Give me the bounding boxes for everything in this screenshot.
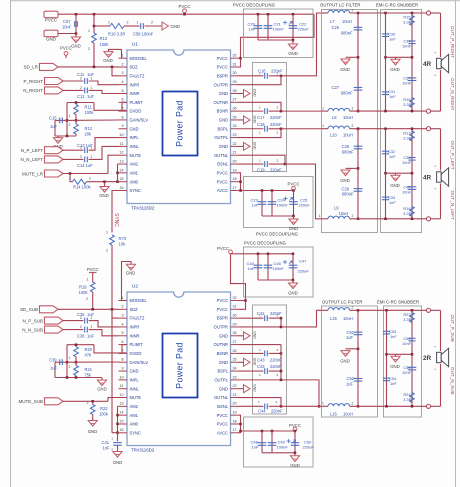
- wire OUT_P_SUB: [378, 309, 427, 311]
- svg-text:OUT_P_LEFT: OUT_P_LEFT: [450, 141, 455, 170]
- svg-text:680nF: 680nF: [342, 192, 354, 197]
- wire sub snub right rail: [411, 310, 413, 406]
- junction SD_SUB/R19: [91, 308, 94, 311]
- svg-text:C29: C29: [341, 186, 349, 191]
- junction R21 bottom: [75, 376, 78, 379]
- junction OUTNL/BSNL: [284, 163, 287, 166]
- connector MUTE_SUB: [45, 398, 64, 405]
- capacitor C32: [382, 151, 389, 154]
- svg-text:2: 2: [277, 314, 279, 318]
- svg-text:GND: GND: [390, 183, 400, 188]
- junction SD_LR/FAULTZ: [111, 66, 114, 69]
- capacitor C37: [408, 78, 417, 81]
- junction AM0 U2: [116, 423, 119, 426]
- wire L10 out: [350, 128, 378, 130]
- svg-text:BSPR: BSPR: [217, 73, 228, 78]
- output LC filter box (top): [322, 10, 378, 233]
- capacitor C57: [75, 21, 78, 27]
- svg-text:TPA3116D2: TPA3116D2: [131, 206, 155, 211]
- svg-text:SYNC: SYNC: [130, 430, 141, 435]
- svg-text:INNL: INNL: [130, 386, 140, 391]
- svg-text:10nF: 10nF: [402, 44, 411, 49]
- junction SYNC row U2: [116, 431, 119, 434]
- svg-text:220nF: 220nF: [270, 115, 282, 120]
- wire AM1 stub: [118, 172, 119, 174]
- svg-text:220uF: 220uF: [298, 27, 310, 32]
- svg-text:N_N_SUB: N_N_SUB: [22, 327, 43, 332]
- svg-text:C43: C43: [257, 358, 265, 363]
- capacitor C13: [85, 147, 88, 153]
- svg-text:N_RIGHT: N_RIGHT: [23, 88, 43, 93]
- wire into lower box U2: [241, 430, 296, 432]
- wire BSPL sub: [239, 370, 263, 372]
- svg-text:PVCC: PVCC: [45, 18, 57, 23]
- junction PVCC/C57: [75, 13, 78, 16]
- wire R21 bottom: [75, 376, 77, 378]
- wire divider bottom: [55, 135, 76, 137]
- svg-text:680nF: 680nF: [342, 149, 354, 154]
- wire sub rail: [231, 253, 294, 255]
- capacitor C43: [265, 351, 268, 357]
- svg-text:GND: GND: [340, 358, 350, 363]
- svg-text:1nF: 1nF: [389, 200, 396, 205]
- svg-text:GND: GND: [103, 58, 113, 63]
- svg-text:100nF: 100nF: [277, 203, 289, 208]
- wire L8 out: [350, 110, 378, 112]
- svg-text:1: 1: [322, 107, 324, 111]
- svg-text:26: 26: [233, 349, 237, 353]
- wire L9 out: [350, 218, 378, 220]
- svg-text:4: 4: [121, 322, 123, 326]
- bootstrap capacitor group box U2: [253, 305, 287, 414]
- junction lower gnd: [292, 215, 295, 218]
- svg-text:25: 25: [233, 115, 237, 119]
- PVCC decoupling box (sub, lower): [244, 417, 314, 467]
- svg-text:1: 1: [111, 436, 113, 440]
- U1 pin 5 INNR: [119, 89, 140, 96]
- svg-text:1: 1: [121, 54, 123, 58]
- svg-text:1: 1: [69, 114, 71, 118]
- svg-text:7: 7: [121, 349, 123, 353]
- svg-text:OUTPR: OUTPR: [214, 325, 228, 330]
- svg-text:R13: R13: [100, 36, 108, 41]
- wire C36 to INNR: [89, 330, 119, 336]
- connector N_N_LEFT: [45, 156, 64, 163]
- U2 pin 14 AM1: [119, 411, 139, 418]
- wire snubber left rail 2: [385, 129, 387, 219]
- U1 pin 7 GVDD: [119, 107, 142, 114]
- wire BSNR sub: [239, 352, 263, 354]
- svg-text:PVCC: PVCC: [217, 170, 228, 175]
- wire SYNC lower: [111, 245, 113, 433]
- junction rail/R13: [93, 13, 96, 16]
- svg-text:OUT_N_SUB: OUT_N_SUB: [450, 367, 455, 395]
- svg-text:20: 20: [233, 402, 237, 406]
- svg-text:10uH: 10uH: [343, 316, 353, 321]
- svg-text:19: 19: [233, 411, 237, 415]
- wire C43 out: [269, 352, 281, 354]
- U2 pin 19 PVCC: [217, 411, 239, 418]
- speaker right channel: [437, 54, 449, 72]
- svg-text:12: 12: [119, 151, 123, 155]
- resistor R21: [74, 366, 79, 376]
- wire snubber right rail 2: [411, 129, 413, 219]
- svg-text:2: 2: [80, 76, 82, 80]
- svg-text:8: 8: [121, 115, 123, 119]
- wire C49 leads: [271, 431, 273, 453]
- capacitor C20: [254, 26, 263, 29]
- power PVCC circle: [64, 52, 68, 56]
- node OUT_P_SUB terminal: [426, 308, 430, 312]
- wire C14 to INNL: [89, 146, 119, 159]
- ground snubber L: [391, 175, 400, 181]
- junction OUTPL sub: [280, 379, 283, 382]
- PVCC decoupling box (top): [244, 9, 314, 58]
- svg-text:27: 27: [233, 98, 237, 102]
- wire OUTPR sub feed: [281, 310, 322, 327]
- svg-text:17: 17: [233, 186, 237, 190]
- U1 pin 1 MODSEL: [119, 54, 148, 61]
- svg-text:2: 2: [352, 306, 354, 310]
- svg-text:PVCC: PVCC: [217, 246, 229, 251]
- power PVCC bar for R19: [89, 272, 97, 274]
- junction SD_SUB/SYNC column: [111, 308, 114, 311]
- wire C22 leads: [292, 14, 294, 40]
- ground pin22: [244, 142, 251, 150]
- svg-text:GND: GND: [253, 358, 257, 366]
- svg-text:C17: C17: [257, 115, 265, 120]
- U1 pin 31 PVCC: [217, 62, 239, 69]
- svg-text:220nF: 220nF: [270, 364, 282, 369]
- svg-text:GND: GND: [130, 369, 139, 374]
- junction C43b: [280, 370, 283, 373]
- capacitor C12: [85, 88, 88, 94]
- svg-text:AM2: AM2: [130, 162, 139, 167]
- junction C43a: [280, 352, 283, 355]
- svg-text:1: 1: [87, 277, 89, 281]
- svg-text:GVDD: GVDD: [130, 109, 142, 114]
- wire sub decoupling bottom: [258, 279, 293, 281]
- svg-text:2: 2: [80, 86, 82, 90]
- connector MUTE_LR: [45, 170, 64, 177]
- junction AM bracket bottom: [116, 180, 119, 183]
- wire pin25 U2 ground: [239, 361, 244, 363]
- wire sub divider top: [67, 344, 94, 346]
- svg-text:PVCC: PVCC: [217, 413, 228, 418]
- U1 pin 27 OUTNR: [213, 98, 239, 105]
- U2 pin 29 OUTPR: [214, 322, 239, 329]
- U2 pin 2 SDZ: [119, 305, 139, 312]
- wire PVCC rail stub: [184, 13, 186, 15]
- svg-text:INPR: INPR: [130, 325, 140, 330]
- svg-text:220uF: 220uF: [298, 269, 310, 274]
- svg-text:4R: 4R: [423, 174, 432, 181]
- svg-text:2: 2: [88, 47, 90, 51]
- capacitor C51: [354, 332, 363, 335]
- svg-text:3.3R: 3.3R: [403, 397, 411, 402]
- junction rail gnd tap: [357, 56, 360, 59]
- wire MUTE to pin12 U2: [108, 398, 119, 402]
- svg-text:3: 3: [121, 314, 123, 318]
- capacitor C50: [291, 443, 300, 446]
- wire AM0 stub U2: [118, 423, 119, 425]
- wire OUT_N_RIGHT: [378, 110, 427, 112]
- wire C44 out: [269, 405, 281, 407]
- U1 pin 24 BSPL: [218, 124, 239, 131]
- capacitor C48: [258, 443, 267, 446]
- wire snubber left rail: [385, 13, 387, 111]
- junction C23 top: [261, 189, 264, 192]
- junction divider tap: [75, 119, 78, 122]
- svg-text:AM0: AM0: [130, 179, 139, 184]
- svg-text:2: 2: [277, 373, 279, 377]
- svg-text:P_RIGHT: P_RIGHT: [23, 79, 43, 84]
- svg-text:R73: R73: [119, 236, 127, 241]
- svg-text:GND: GND: [219, 91, 228, 96]
- capacitor C27: [354, 88, 363, 91]
- ground sub divider: [97, 380, 106, 386]
- svg-text:PVCC DECOUPLING: PVCC DECOUPLING: [244, 241, 286, 246]
- svg-text:2: 2: [277, 105, 279, 109]
- junction pin17: [239, 189, 242, 192]
- svg-text:GND: GND: [99, 193, 109, 198]
- wire FAULTZ sub link: [112, 309, 119, 318]
- U2 pin 12 MUTE: [119, 393, 142, 400]
- svg-text:2: 2: [277, 158, 279, 162]
- capacitor C52: [354, 379, 363, 382]
- svg-text:7: 7: [121, 107, 123, 111]
- svg-text:AM0: AM0: [130, 422, 139, 427]
- svg-text:2: 2: [352, 214, 354, 218]
- svg-text:OUTPL: OUTPL: [214, 377, 228, 382]
- wire to speaker -: [431, 110, 441, 112]
- wire AM2 stub: [118, 163, 119, 165]
- capacitor C36: [85, 327, 88, 333]
- wire C50 leads: [294, 431, 296, 453]
- junction decoupling gnd: [292, 39, 295, 42]
- junction snubber right rail top: [411, 12, 414, 15]
- wire tap to GAIN/SLV: [67, 119, 119, 121]
- svg-text:6: 6: [121, 98, 123, 102]
- junction OUTPR/BSPR: [280, 75, 283, 78]
- wire P_RIGHT to C11: [63, 80, 84, 82]
- svg-text:1nF: 1nF: [103, 446, 111, 451]
- junction sub snub mid L: [385, 353, 388, 356]
- U1 power pad: [163, 92, 198, 156]
- U2 pin 27 OUTNR: [213, 340, 239, 347]
- wire to sub divider gnd: [101, 378, 103, 381]
- wire to sub speaker +: [431, 309, 441, 311]
- svg-text:SYNC: SYNC: [130, 188, 141, 193]
- wire pin32 tie U2: [239, 300, 246, 302]
- junction C44: [280, 405, 283, 408]
- svg-text:2: 2: [80, 325, 82, 329]
- svg-text:1nF: 1nF: [252, 203, 259, 208]
- wire OUTNR jog: [239, 102, 281, 111]
- svg-text:1: 1: [91, 316, 93, 320]
- wire speaker2 + drop: [440, 129, 442, 171]
- bootstrap capacitor group box: [253, 63, 287, 172]
- svg-text:2R: 2R: [423, 355, 432, 362]
- wire OUTPL feed: [281, 128, 322, 130]
- junction C21 top: [267, 13, 270, 16]
- U2 pin 10 INPL: [119, 375, 140, 382]
- svg-text:GND: GND: [71, 44, 81, 49]
- node OUT_N_LEFT terminal: [426, 217, 430, 221]
- U2 pin 28 GND: [219, 331, 239, 338]
- wire SD_LR to SDZ pin2: [58, 66, 119, 68]
- svg-text:4R: 4R: [423, 61, 432, 68]
- capacitor C19: [265, 161, 268, 167]
- svg-text:AM1: AM1: [130, 413, 139, 418]
- junction SD_LR/R13: [93, 66, 96, 69]
- junction divider bottom: [66, 135, 69, 138]
- capacitor C16: [265, 73, 268, 79]
- svg-text:2: 2: [80, 146, 82, 150]
- svg-text:R20: R20: [85, 347, 93, 352]
- svg-text:L8: L8: [332, 115, 337, 120]
- svg-text:AM1: AM1: [130, 170, 139, 175]
- svg-text:100k: 100k: [99, 411, 109, 416]
- ground C41: [113, 452, 122, 458]
- capacitor C53: [383, 331, 390, 334]
- wire C58 to ground: [145, 25, 163, 27]
- wire into L10: [322, 128, 329, 130]
- U2 pin 31 PVCC: [217, 305, 239, 312]
- svg-text:30: 30: [233, 314, 237, 318]
- svg-text:GND: GND: [219, 118, 228, 123]
- node OUT_P_RIGHT terminal: [426, 11, 430, 15]
- wire pin18 tie: [239, 181, 241, 183]
- wire to gnd sub lower: [294, 453, 296, 456]
- svg-text:GND: GND: [340, 178, 350, 183]
- svg-text:PVCC: PVCC: [60, 45, 72, 50]
- wire L16 out: [350, 405, 378, 407]
- svg-text:C36: C36: [77, 333, 85, 338]
- junction C22 top: [292, 13, 295, 16]
- svg-text:1nF: 1nF: [390, 334, 397, 339]
- U1 pin 12 MUTE: [119, 151, 142, 158]
- svg-text:30: 30: [233, 71, 237, 75]
- wire gnd stub 2: [395, 173, 397, 175]
- wire PVCC rail: [76, 13, 314, 15]
- wire R20 top: [75, 345, 77, 347]
- wire sub snub mid: [387, 353, 413, 355]
- capacitor C14: [85, 157, 88, 163]
- wire C19 out: [269, 163, 285, 165]
- U2 pin 5 INNR: [119, 331, 140, 338]
- svg-text:24: 24: [233, 124, 237, 128]
- svg-text:Power Pad: Power Pad: [175, 342, 185, 389]
- resistor R11: [74, 105, 79, 115]
- capacitor C44: [265, 403, 268, 409]
- svg-text:+: +: [434, 345, 436, 349]
- wire OUTPL sub: [239, 379, 281, 381]
- svg-text:GND: GND: [97, 387, 107, 392]
- svg-text:20k: 20k: [85, 132, 93, 137]
- svg-text:1: 1: [259, 373, 261, 377]
- svg-text:21: 21: [233, 151, 237, 155]
- connector GND input tag: [44, 30, 58, 37]
- capacitor C21: [264, 26, 273, 29]
- ground sub snubber: [391, 356, 400, 362]
- junction sub snub R bot: [411, 405, 414, 408]
- svg-text:1: 1: [259, 131, 261, 135]
- junction OUTPL/L16 row: [318, 405, 321, 408]
- svg-text:GAIN/SLV: GAIN/SLV: [130, 360, 149, 365]
- capacitor C18: [265, 126, 268, 132]
- wire into L15: [322, 309, 329, 311]
- junction C48 top: [261, 430, 264, 433]
- svg-text:OUTPUT LC FILTER: OUTPUT LC FILTER: [322, 300, 363, 305]
- svg-text:1uF: 1uF: [50, 124, 58, 129]
- svg-text:L10: L10: [330, 133, 338, 138]
- wire GVDD row: [94, 103, 122, 111]
- svg-text:BSPL: BSPL: [218, 369, 229, 374]
- svg-text:GND: GND: [288, 51, 298, 56]
- EMI C-RC snubber box (top): [381, 10, 422, 233]
- wire snubber mid 2: [386, 172, 413, 174]
- wire C18 out: [269, 128, 281, 130]
- svg-text:680nF: 680nF: [341, 30, 353, 35]
- connector SD_SUB: [40, 306, 59, 313]
- U1 pin 32 PVCC: [217, 54, 239, 61]
- wire R21 top: [75, 362, 77, 365]
- junction to box U2: [239, 430, 242, 433]
- U1 pin 16 SYNC: [119, 186, 141, 193]
- ground pin28 U2: [244, 332, 251, 340]
- svg-text:100nF: 100nF: [273, 266, 285, 271]
- junction pin18 U2: [239, 423, 242, 426]
- svg-text:PVCC: PVCC: [217, 179, 228, 184]
- svg-text:OUT_N_RIGHT: OUT_N_RIGHT: [450, 78, 455, 111]
- svg-text:12: 12: [119, 393, 123, 397]
- svg-text:1nF: 1nF: [248, 266, 255, 271]
- junction C50 top: [294, 430, 297, 433]
- junction rail2 gnd tap: [357, 167, 360, 170]
- svg-text:1: 1: [91, 155, 93, 159]
- svg-text:N_P_LEFT: N_P_LEFT: [21, 148, 44, 153]
- svg-text:1: 1: [108, 20, 110, 24]
- wire OUT_N_SUB: [378, 405, 427, 407]
- capacitor C43 (second): [265, 368, 268, 374]
- junction sub decoupling gnd: [292, 279, 295, 282]
- junction C46 top: [267, 253, 270, 256]
- svg-text:GVDD: GVDD: [130, 351, 142, 356]
- svg-text:R21: R21: [85, 367, 93, 372]
- wire SYNC upper: [112, 191, 119, 233]
- svg-text:8: 8: [121, 358, 123, 362]
- svg-text:GND: GND: [219, 144, 228, 149]
- U1 pin 9 GND: [119, 124, 139, 131]
- junction rail bottom: [357, 110, 360, 113]
- wire OUTPR sub jog: [239, 318, 281, 327]
- junction MUTE/R22: [91, 400, 94, 403]
- svg-text:15: 15: [119, 177, 123, 181]
- wire pin18 tie U2: [239, 423, 241, 425]
- capacitor C34: [408, 41, 415, 44]
- junction C25 top: [292, 189, 295, 192]
- power PVCC circle lower box: [292, 187, 296, 191]
- svg-text:1uF: 1uF: [346, 335, 354, 340]
- wire node FAULTZ link: [112, 67, 119, 76]
- inductor L15: [328, 308, 350, 311]
- svg-text:28: 28: [233, 331, 237, 335]
- svg-text:N_N_LEFT: N_N_LEFT: [20, 157, 43, 162]
- power PVCC circle sub lower: [293, 427, 297, 431]
- U2 pin 16 SYNC: [119, 428, 141, 435]
- svg-text:2: 2: [80, 155, 82, 159]
